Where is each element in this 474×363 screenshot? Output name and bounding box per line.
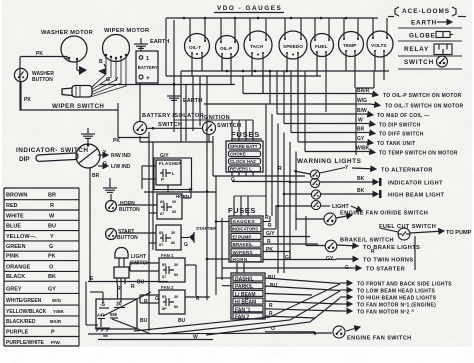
svg-text:BU: BU — [48, 224, 56, 230]
svg-text:30: 30 — [171, 231, 175, 235]
svg-text:TO TEMP SWITCH ON MOTOR: TO TEMP SWITCH ON MOTOR — [379, 151, 458, 157]
svg-text:CHOKE: CHOKE — [230, 152, 246, 157]
svg-text:P: P — [51, 330, 55, 336]
svg-text:W/G: W/G — [357, 98, 367, 104]
svg-text:R: R — [50, 203, 54, 209]
svg-text:BROWN: BROWN — [6, 193, 27, 199]
svg-text:BK: BK — [48, 274, 56, 280]
svg-text:+: + — [146, 75, 150, 82]
svg-text:ENGINE FAN SWITCH: ENGINE FAN SWITCH — [347, 336, 412, 342]
svg-text:86: 86 — [171, 241, 175, 245]
svg-text:BUTTON: BUTTON — [119, 207, 140, 213]
svg-text:PURPLE: PURPLE — [6, 330, 29, 336]
svg-text:YELLOW/BLACK: YELLOW/BLACK — [6, 309, 47, 315]
svg-text:BATTERY: BATTERY — [138, 65, 158, 70]
svg-text:87: 87 — [159, 243, 163, 247]
svg-text:OIL-P: OIL-P — [220, 46, 232, 51]
svg-text:OIL-T: OIL-T — [189, 45, 201, 50]
svg-text:SWITCH: SWITCH — [404, 59, 434, 66]
svg-text:R: R — [269, 303, 273, 309]
svg-text:FLASHER: FLASHER — [159, 161, 182, 166]
svg-text:GAUGES: GAUGES — [233, 219, 255, 224]
svg-text:DASH/L: DASH/L — [235, 277, 254, 283]
svg-text:30: 30 — [174, 295, 178, 299]
svg-text:RED: RED — [6, 203, 18, 209]
svg-text:W: W — [193, 335, 198, 341]
svg-text:WIPER SWITCH: WIPER SWITCH — [52, 103, 104, 110]
svg-text:Y: Y — [50, 234, 54, 240]
svg-text:TO DIFF SWITCH: TO DIFF SWITCH — [379, 132, 424, 138]
svg-text:ORANGE: ORANGE — [6, 264, 30, 270]
svg-text:FAN '1: FAN '1 — [235, 307, 251, 313]
svg-text:B: B — [99, 59, 103, 65]
svg-text:BU: BU — [178, 318, 186, 324]
svg-text:G: G — [155, 296, 159, 302]
svg-text:BU: BU — [140, 318, 148, 324]
svg-text:8P: 8P — [162, 307, 167, 311]
svg-text:G: G — [49, 244, 53, 250]
svg-text:VOLTS: VOLTS — [371, 43, 387, 49]
svg-text:REVERS L: REVERS L — [230, 167, 252, 172]
svg-text:G: G — [184, 242, 188, 248]
svg-text:BR: BR — [357, 127, 365, 133]
svg-text:INDICATOR LIGHT: INDICATOR LIGHT — [388, 181, 443, 187]
svg-text:O: O — [49, 264, 54, 270]
svg-text:L: L — [172, 171, 175, 176]
svg-text:BR: BR — [48, 193, 56, 199]
svg-text:BLACK/RED: BLACK/RED — [6, 319, 36, 325]
svg-text:BUTTON: BUTTON — [32, 77, 53, 83]
svg-text:GY: GY — [357, 136, 365, 142]
svg-text:GREEN: GREEN — [6, 244, 26, 250]
svg-text:R/W IND: R/W IND — [111, 153, 131, 159]
svg-text:R: R — [144, 299, 148, 305]
svg-text:G: G — [231, 177, 235, 183]
svg-text:BRAKE/L SWITCH: BRAKE/L SWITCH — [340, 238, 394, 244]
svg-text:WARNING LIGHTS: WARNING LIGHTS — [297, 158, 362, 165]
svg-text:TACH: TACH — [250, 44, 264, 50]
svg-text:DIP: DIP — [19, 156, 30, 163]
svg-text:BK/R: BK/R — [50, 319, 62, 324]
svg-text:RELAY: RELAY — [404, 46, 429, 53]
svg-text:R: R — [371, 249, 375, 255]
svg-text:30: 30 — [172, 200, 176, 204]
svg-text:BUTTON: BUTTON — [117, 235, 138, 241]
svg-text:TO STARTER: TO STARTER — [366, 267, 405, 273]
svg-text:TO DIP SWITCH: TO DIP SWITCH — [379, 123, 421, 129]
svg-text:ENGINE FAN O/RIDE SWITCH: ENGINE FAN O/RIDE SWITCH — [340, 211, 428, 217]
svg-text:1: 1 — [146, 56, 149, 62]
svg-text:R: R — [189, 188, 193, 194]
svg-text:L/W IND: L/W IND — [111, 164, 131, 170]
svg-text:GLOBE: GLOBE — [409, 33, 436, 40]
svg-text:BRAKE/L: BRAKE/L — [233, 242, 254, 247]
svg-text:TO OIL-P SWITCH ON MOTOR: TO OIL-P SWITCH ON MOTOR — [383, 93, 462, 99]
svg-text:VDO - GAUGES: VDO - GAUGES — [217, 5, 282, 12]
svg-text:TO TWIN HORNS: TO TWIN HORNS — [363, 258, 413, 264]
svg-text:85: 85 — [160, 200, 164, 204]
svg-text:SWITCH: SWITCH — [158, 122, 182, 128]
svg-text:EARTH: EARTH — [411, 20, 437, 27]
svg-text:PK: PK — [266, 247, 273, 253]
svg-text:TO TANK UNIT: TO TANK UNIT — [377, 141, 415, 147]
svg-text:G: G — [285, 255, 289, 261]
svg-text:YELLOW—.: YELLOW—. — [6, 234, 37, 240]
svg-text:SPARE BATT: SPARE BATT — [230, 144, 258, 149]
svg-text:PK: PK — [113, 138, 120, 144]
svg-text:HIGH BEAM LIGHT: HIGH BEAM LIGHT — [388, 193, 445, 199]
svg-text:FAN 2: FAN 2 — [161, 285, 174, 290]
svg-text:TO HIGH BEAM HEAD LIGHTS: TO HIGH BEAM HEAD LIGHTS — [357, 296, 437, 302]
svg-text:87: 87 — [160, 212, 164, 216]
svg-text:WIPER MOTOR: WIPER MOTOR — [104, 28, 150, 34]
svg-text:SWITCH: SWITCH — [217, 123, 241, 129]
svg-text:GREY: GREY — [6, 286, 22, 292]
svg-text:TO FAN MOTOR Nº2 ^: TO FAN MOTOR Nº2 ^ — [357, 310, 414, 316]
svg-text:W: W — [49, 213, 55, 219]
svg-text:ACE-LOOMS: ACE-LOOMS — [402, 8, 450, 15]
svg-text:CLOCK HAZ: CLOCK HAZ — [230, 159, 256, 164]
svg-text:85: 85 — [162, 263, 166, 267]
svg-text:B/W: B/W — [357, 108, 367, 114]
svg-text:86: 86 — [174, 273, 178, 277]
svg-text:GY: GY — [48, 286, 56, 292]
svg-text:BK: BK — [357, 188, 365, 194]
svg-text:W: W — [358, 118, 363, 124]
svg-text:R: R — [131, 284, 135, 290]
svg-text:BK: BK — [357, 176, 365, 182]
svg-text:86: 86 — [172, 210, 176, 214]
svg-text:SPEEDO: SPEEDO — [283, 44, 303, 50]
svg-text:BLUE: BLUE — [6, 224, 21, 230]
svg-text:BLACK: BLACK — [6, 274, 25, 280]
svg-text:R: R — [245, 296, 249, 302]
svg-text:INDICATORS: INDICATORS — [232, 227, 258, 232]
svg-text:TO LOW BEAM HEAD LIGHTS: TO LOW BEAM HEAD LIGHTS — [357, 289, 436, 295]
svg-text:WHITE: WHITE — [6, 213, 24, 219]
svg-text:TO M&D OF COIL —: TO M&D OF COIL — — [377, 113, 429, 119]
svg-text:W/BK: W/BK — [356, 146, 370, 152]
svg-text:HORN: HORN — [233, 257, 248, 262]
svg-text:TEMP: TEMP — [343, 43, 357, 49]
svg-text:85: 85 — [162, 295, 166, 299]
svg-text:PK: PK — [48, 254, 56, 260]
svg-text:86: 86 — [174, 305, 178, 309]
svg-text:BATTERY ISOLATOR: BATTERY ISOLATOR — [142, 113, 204, 119]
svg-text:FUEL: FUEL — [315, 44, 328, 50]
svg-text:TO ALTERNATOR: TO ALTERNATOR — [381, 168, 433, 174]
svg-text:TO OIL-T SWITCH ON MOTOR: TO OIL-T SWITCH ON MOTOR — [385, 104, 463, 110]
svg-text:Y/BK: Y/BK — [53, 309, 65, 314]
svg-text:P: P — [161, 177, 164, 182]
svg-text:FAN 1: FAN 1 — [161, 253, 174, 258]
svg-text:WHITE/GREEN: WHITE/GREEN — [6, 298, 42, 304]
svg-text:WIPERS: WIPERS — [233, 250, 254, 255]
svg-text:87: 87 — [162, 275, 166, 279]
svg-text:PINK: PINK — [6, 254, 19, 260]
svg-text:FUSES: FUSES — [228, 206, 256, 215]
svg-text:BR: BR — [92, 173, 100, 179]
svg-text:LIGHT: LIGHT — [332, 204, 349, 210]
svg-text:P/W.: P/W. — [51, 340, 61, 345]
svg-text:PURPLE/WHITE: PURPLE/WHITE — [6, 340, 44, 346]
svg-text:TO FRONT AND BACK SIDE LIGHTS: TO FRONT AND BACK SIDE LIGHTS — [357, 282, 452, 288]
svg-text:TO FAN MOTOR Nº1 (ENGINE): TO FAN MOTOR Nº1 (ENGINE) — [357, 303, 436, 309]
svg-text:BU: BU — [137, 280, 145, 286]
svg-text:30: 30 — [174, 263, 178, 267]
svg-text:R: R — [268, 223, 272, 229]
svg-text:PARK/L: PARK/L — [235, 284, 253, 290]
svg-text:PK: PK — [24, 97, 31, 103]
svg-text:G: G — [106, 77, 110, 83]
svg-text:85: 85 — [159, 231, 163, 235]
svg-text:W/G: W/G — [52, 298, 62, 303]
svg-text:R: R — [278, 166, 282, 172]
svg-text:E/ PUMP: E/ PUMP — [233, 234, 252, 239]
svg-text:56b: 56b — [110, 312, 118, 317]
svg-text:WASHER MOTOR: WASHER MOTOR — [41, 30, 94, 36]
svg-text:LIGHT: LIGHT — [131, 254, 146, 260]
svg-text:TO PUMP: TO PUMP — [446, 230, 472, 236]
